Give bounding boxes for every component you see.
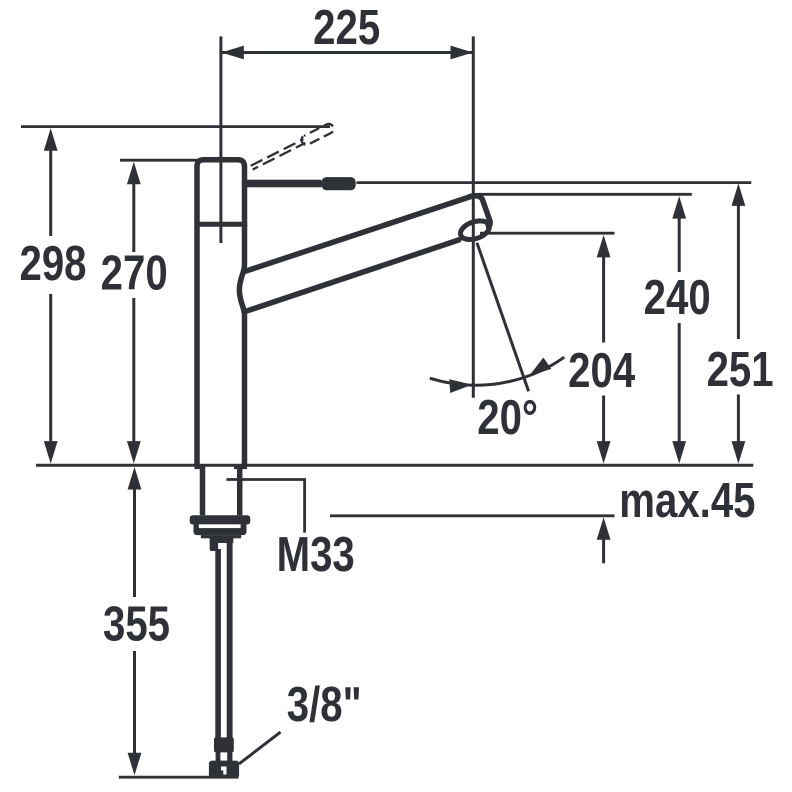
svg-text:270: 270 xyxy=(101,246,168,301)
faucet body outline xyxy=(197,160,245,467)
spout upper edge xyxy=(246,196,472,271)
dimension 355 down arrow xyxy=(128,753,142,776)
supply hose left wall xyxy=(215,549,221,739)
dimension 225 left arrow xyxy=(221,46,244,60)
flange bottom step xyxy=(201,535,241,538)
svg-text:225: 225 xyxy=(313,0,380,55)
dimension 270 down arrow xyxy=(127,441,141,464)
dimension 204 up arrow xyxy=(597,235,611,258)
extension line right of dim 225 / swivel axis vertical xyxy=(472,36,475,397)
dimension 298 line xyxy=(49,150,52,443)
dimension 298 up arrow xyxy=(44,128,58,151)
bottom reference line (hose end level) xyxy=(119,776,239,779)
svg-text:240: 240 xyxy=(644,270,711,325)
reference line body top level xyxy=(120,159,198,162)
svg-text:355: 355 xyxy=(103,597,170,652)
dimension 355 up arrow xyxy=(128,467,142,490)
dimension 270 line xyxy=(132,184,135,443)
lever rod xyxy=(246,180,322,188)
lever grip xyxy=(322,177,356,190)
reference line top (spout max height level) xyxy=(21,125,330,128)
lever level line (251 reference) xyxy=(357,181,752,184)
dimension 225 line xyxy=(221,51,473,54)
svg-text:M33: M33 xyxy=(277,527,355,582)
dimension 251 up arrow xyxy=(732,183,746,206)
swivel axis slanted line 20 deg xyxy=(477,243,529,392)
connector highlight xyxy=(221,767,227,775)
hose neck bars xyxy=(216,752,221,761)
lever raised position dashed xyxy=(250,122,336,172)
angle arc left arrow xyxy=(449,378,472,393)
hose end connector 3/8 xyxy=(209,761,239,779)
spout head outline xyxy=(469,196,490,228)
dimension max.45 arrow and stem xyxy=(602,539,605,563)
dimension 204 down arrow xyxy=(597,441,611,464)
dimension 251 down arrow xyxy=(732,441,746,464)
flange white slot xyxy=(199,524,241,528)
faucet shoulder ticks at counter xyxy=(195,464,205,469)
dimension 225 right arrow xyxy=(451,46,474,60)
svg-text:204: 204 xyxy=(568,343,635,398)
extension line left of dim 225 xyxy=(219,36,222,243)
leader line 3/8 xyxy=(239,732,281,764)
dimension 251 line xyxy=(737,205,740,442)
dimension 355 line xyxy=(133,489,136,754)
svg-text:298: 298 xyxy=(19,236,86,291)
dimension 240 up arrow xyxy=(672,196,686,219)
faucet mounting body below counter xyxy=(200,466,206,515)
angle arc 20 deg xyxy=(430,357,565,385)
angle arc right arrow xyxy=(525,358,551,382)
max.45 lower line xyxy=(330,514,615,517)
dimension 240 line xyxy=(678,218,681,442)
threaded shank stub xyxy=(210,537,234,543)
base flange upper slab xyxy=(190,515,251,524)
dimension 270 up arrow xyxy=(127,162,141,185)
aerator ring xyxy=(458,217,492,243)
spout top level line (240 reference) xyxy=(477,193,692,196)
dimension 240 down arrow xyxy=(672,441,686,464)
spout lower edge xyxy=(246,240,459,312)
hose nut xyxy=(214,737,234,752)
supply hose right wall xyxy=(227,538,233,739)
base flange lower slab xyxy=(194,522,247,535)
leader line M33 xyxy=(226,480,304,533)
faucet head joint line xyxy=(195,222,248,227)
counter top line xyxy=(36,464,753,467)
dimension 204 line xyxy=(602,257,605,443)
svg-text:3/8": 3/8" xyxy=(287,677,362,732)
svg-text:251: 251 xyxy=(707,342,774,397)
svg-text:20°: 20° xyxy=(477,390,538,445)
aerator level line (204 reference) xyxy=(480,232,615,235)
dimension 298 down arrow xyxy=(44,441,58,464)
svg-text:max.45: max.45 xyxy=(619,473,755,528)
